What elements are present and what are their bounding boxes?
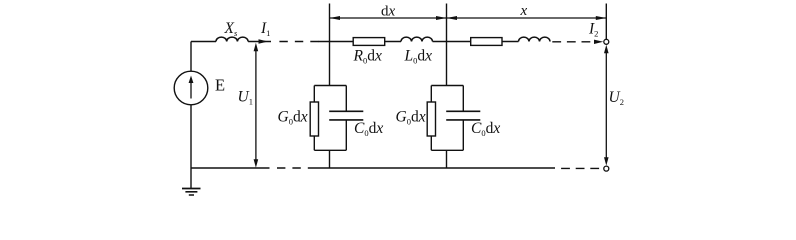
svg-text:G0dx: G0dx (396, 109, 426, 127)
inductor (second section) (519, 37, 551, 41)
wire with I1 arrow (248, 41, 271, 43)
voltage arrow U1 (double-headed) (255, 47, 257, 163)
svg-text:C0dx: C0dx (471, 120, 500, 138)
tick/stem at x=446.5 (second section boundary) (446, 4, 448, 86)
shunt branch 1 frame (314, 86, 346, 169)
shunt branch 2 frame (431, 86, 463, 169)
wire bottom dashed left (270, 167, 314, 169)
wire bottom solid middle (314, 167, 555, 169)
wire bottom dashed right (555, 167, 603, 169)
svg-text:R0dx: R0dx (353, 48, 382, 66)
wire top-left from source corner to coil (191, 41, 216, 43)
wire dashed top-right with I2 arrow (552, 41, 597, 43)
resistor R0dx (353, 38, 385, 46)
svg-text:E: E (215, 76, 225, 95)
wire to resistor R0dx (318, 41, 353, 43)
terminal node top-right (604, 39, 609, 44)
wire dashed top-left (279, 41, 318, 43)
wire left rail bottom (source to ground) (190, 105, 192, 189)
resistor (second section) (471, 38, 502, 46)
svg-text:G0dx: G0dx (278, 109, 308, 127)
svg-text:C0dx: C0dx (354, 120, 383, 138)
tick/stem at x=329.5 (first section boundary) (329, 4, 331, 86)
inductor Xs (216, 37, 248, 41)
svg-text:dx: dx (381, 3, 396, 19)
wire bottom solid left (191, 167, 270, 169)
voltage arrow U2 (double-headed) (605, 49, 607, 162)
inductor L0dx (401, 37, 433, 41)
resistor G0dx (branch 2) (427, 102, 435, 136)
svg-text:x: x (520, 3, 528, 19)
capacitor C0dx (branch 1) (329, 110, 363, 112)
tick at right terminal (605, 4, 607, 40)
wire to third inductor (502, 41, 519, 43)
terminal node bottom-right (604, 166, 609, 171)
svg-text:L0dx: L0dx (404, 48, 433, 66)
wire L0dx to second resistor (433, 41, 471, 43)
wire resistor to L0dx (385, 41, 401, 43)
dimension dx arrow line (330, 17, 447, 19)
ground (182, 188, 201, 190)
dimension x arrow line (447, 17, 607, 19)
wire left rail top (corner to source) (190, 42, 192, 72)
current source E (174, 71, 208, 105)
capacitor C0dx (branch 2) (446, 110, 480, 112)
resistor G0dx (branch 1) (310, 102, 318, 136)
